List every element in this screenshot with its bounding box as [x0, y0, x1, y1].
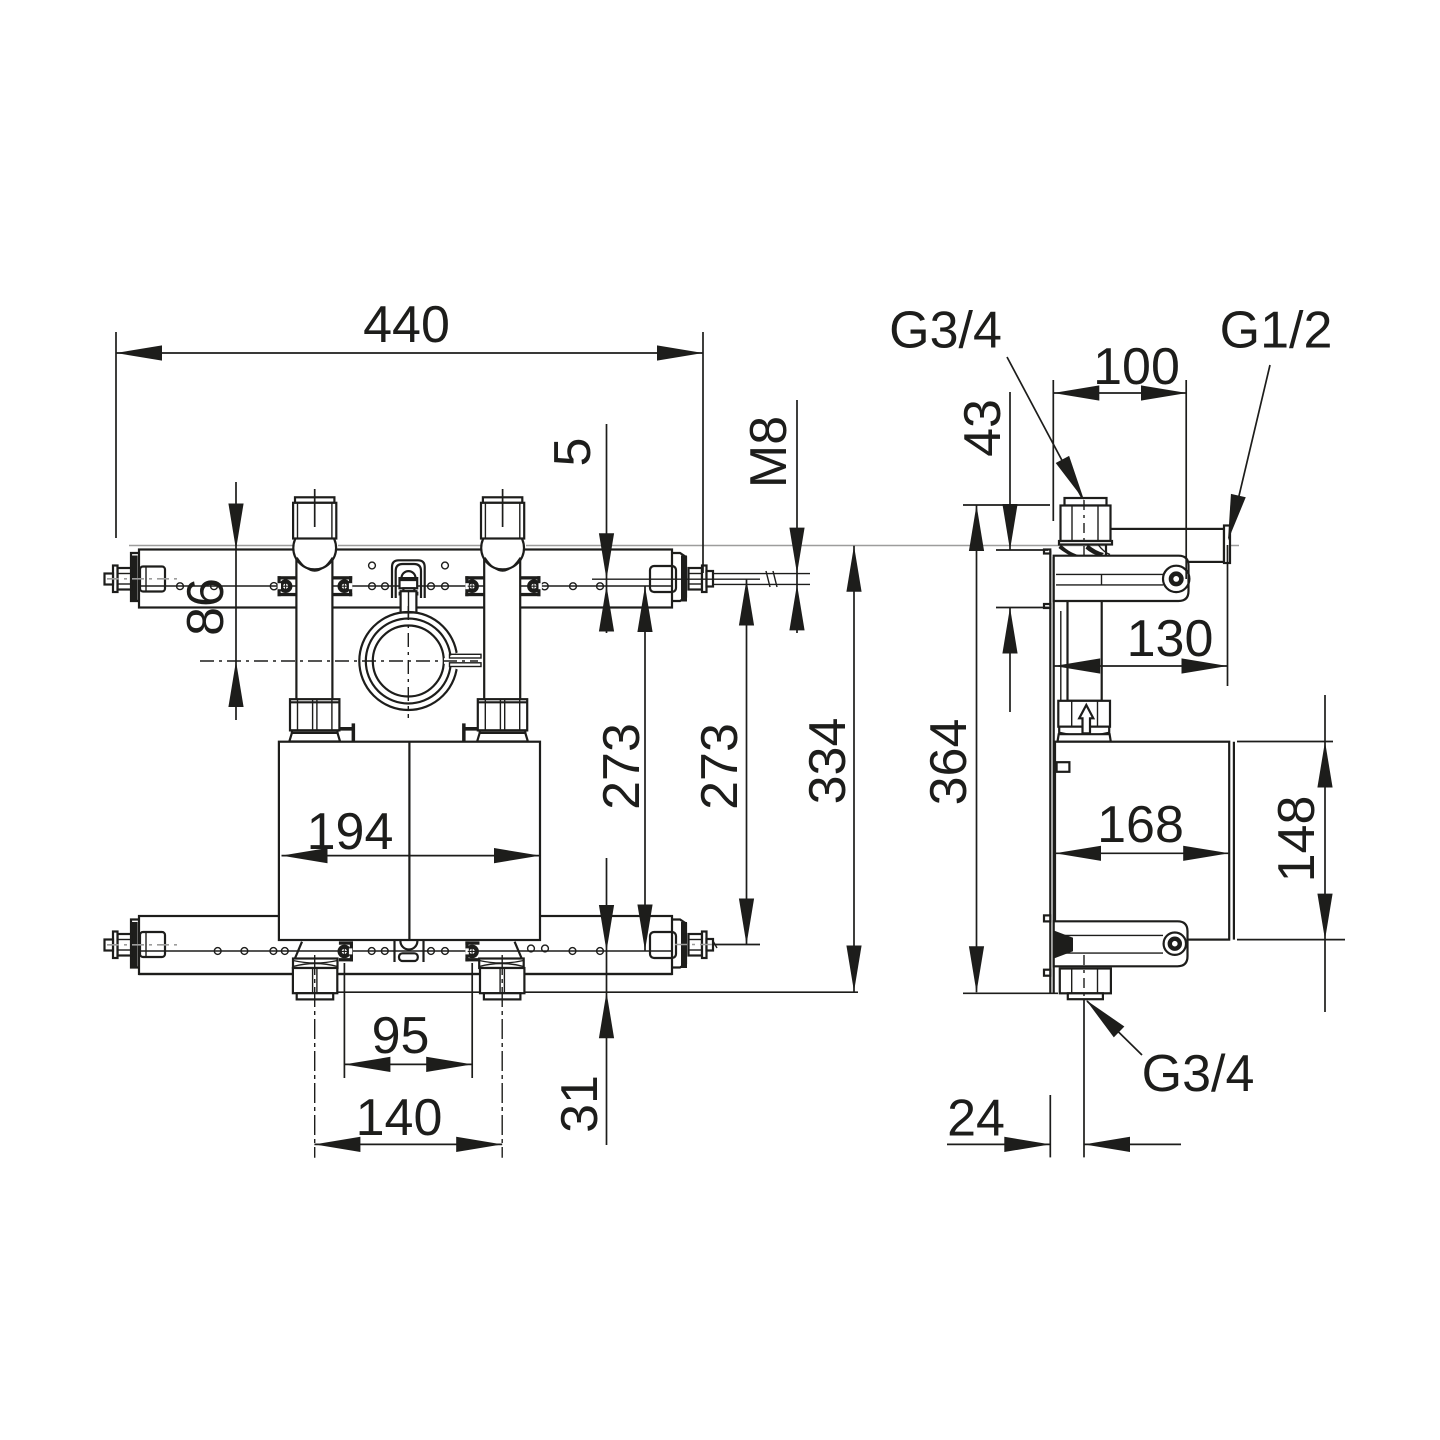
svg-text:168: 168 — [1097, 796, 1184, 854]
svg-text:364: 364 — [920, 719, 978, 806]
svg-text:G3/4: G3/4 — [1142, 1045, 1255, 1103]
label G1/2 with leader — [1220, 302, 1333, 543]
top rail left bolt (hex, washer, stub) — [105, 566, 181, 593]
top rail holes — [177, 562, 604, 590]
svg-text:140: 140 — [356, 1089, 443, 1147]
pipe 2 lower tube nut — [462, 699, 528, 741]
dimension 24 — [947, 999, 1181, 1157]
dimension 95 — [344, 963, 472, 1078]
mid port fitting (side) with flow arrow — [1058, 701, 1111, 742]
bottom rail left end cap — [131, 920, 165, 969]
svg-text:43: 43 — [954, 399, 1012, 457]
wall reference line (gray) — [129, 545, 1239, 547]
top rail right bolt with M8 threaded rod — [592, 566, 810, 593]
bottom center bracket — [395, 941, 424, 962]
outlet fitting 2 (bottom, G3/4) — [465, 941, 524, 1157]
svg-text:334: 334 — [799, 718, 857, 805]
svg-text:273: 273 — [691, 723, 749, 810]
dimension 43 — [954, 392, 1049, 712]
pipe clamp ring (center) — [359, 612, 481, 710]
pipe hanger U-bracket on top rail — [392, 560, 425, 617]
riser pipe 1 top union nut G3/4 — [293, 489, 336, 571]
bottom port fitting G3/4 (side) — [1060, 955, 1111, 999]
svg-text:100: 100 — [1093, 338, 1180, 396]
svg-text:440: 440 — [363, 296, 450, 354]
svg-text:194: 194 — [307, 803, 394, 861]
bottom rail left bolt — [105, 932, 181, 959]
pipe 1 lower tube nut — [289, 699, 355, 741]
svg-text:31: 31 — [551, 1075, 609, 1133]
pipe clamp brackets on top rail (pipe 1) — [278, 576, 353, 596]
bottom rail right bolt — [675, 932, 760, 959]
dimension 140 — [314, 1089, 502, 1152]
dimension 273 (left) — [593, 586, 653, 951]
dimension M8 — [740, 400, 805, 633]
support arm bottom (side) — [1054, 921, 1188, 966]
riser pipe 2 top union nut G3/4 — [481, 489, 524, 571]
pipe clamp brackets on top rail (pipe 2) — [465, 576, 542, 596]
top rail left end cap — [131, 553, 165, 602]
dimension 364 — [920, 505, 1058, 993]
mounting plate (wall profile) — [1044, 550, 1054, 994]
riser pipe (side) — [1068, 557, 1102, 701]
clip on plate (top) — [1056, 577, 1072, 593]
label G3/4 bottom with leader — [1081, 995, 1255, 1103]
bottom rail right end cap — [650, 920, 687, 969]
dimension 194 — [282, 803, 541, 863]
svg-text:24: 24 — [947, 1090, 1005, 1148]
dimension 31 — [337, 858, 858, 1145]
svg-text:148: 148 — [1268, 796, 1326, 883]
dimension 273 (right) — [691, 580, 754, 945]
riser pipe 2 — [484, 556, 520, 700]
outlet fitting 1 (bottom, G3/4) — [293, 941, 353, 1157]
G3/4 union nut top (side) — [1059, 498, 1113, 559]
riser pipe 1 — [296, 556, 332, 700]
dimension 5 — [544, 424, 614, 633]
svg-text:M8: M8 — [740, 416, 798, 488]
label G3/4 top with leader — [889, 302, 1091, 504]
svg-text:G3/4: G3/4 — [889, 302, 1002, 360]
bottom rail body — [139, 916, 672, 974]
support arm top (side) — [1054, 556, 1190, 601]
right outlet trapezoid plate — [515, 942, 522, 959]
dimension 168 — [1055, 796, 1229, 861]
function box (front) — [279, 742, 540, 940]
bottom rail holes — [214, 945, 603, 954]
left outlet trapezoid plate — [295, 942, 302, 959]
function box (side) — [1055, 742, 1234, 940]
svg-text:5: 5 — [544, 438, 602, 467]
svg-text:130: 130 — [1127, 610, 1214, 668]
top rail body — [139, 550, 672, 608]
top rail right end cap — [650, 553, 687, 602]
dimension 334 — [799, 546, 862, 992]
dimension 440 — [116, 296, 703, 573]
dimension 100 — [1053, 338, 1187, 579]
svg-text:95: 95 — [372, 1007, 430, 1065]
clamp center lines — [200, 606, 478, 718]
svg-text:273: 273 — [593, 723, 651, 810]
svg-text:86: 86 — [177, 578, 235, 636]
svg-text:G1/2: G1/2 — [1220, 302, 1333, 360]
bottom rail bottom edge redraw — [139, 973, 672, 975]
G1/2 outlet pipe (side) — [1106, 526, 1230, 564]
dimension 148 — [1237, 695, 1345, 1012]
dimension 130 — [1054, 545, 1227, 686]
dimension 86 — [177, 482, 244, 720]
